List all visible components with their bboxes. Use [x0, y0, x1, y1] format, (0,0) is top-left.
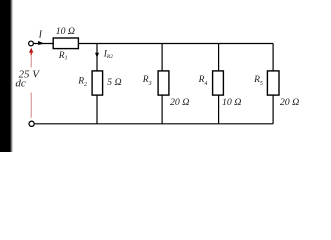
svg-text:5 Ω: 5 Ω	[107, 77, 121, 88]
svg-text:10 Ω: 10 Ω	[222, 97, 241, 108]
svg-text:20 Ω: 20 Ω	[170, 97, 189, 108]
svg-text:I: I	[38, 30, 43, 41]
svg-text:dc: dc	[15, 77, 26, 89]
svg-text:20 Ω: 20 Ω	[280, 97, 299, 108]
svg-text:10 Ω: 10 Ω	[56, 26, 75, 37]
